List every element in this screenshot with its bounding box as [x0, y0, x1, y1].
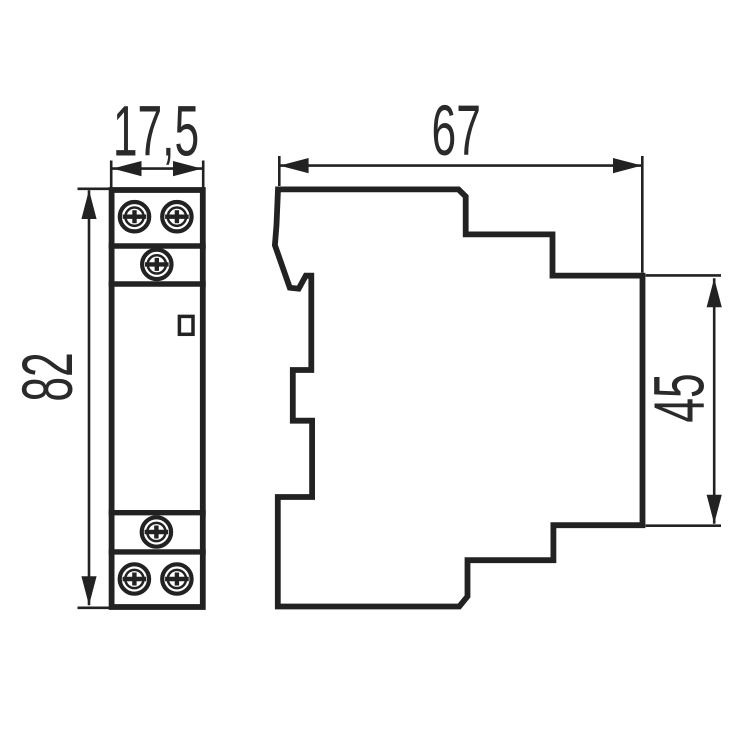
dimension 17,5 line [113, 167, 203, 170]
dimension 82 extension line bottom [78, 606, 111, 609]
screw terminal lower-middle [142, 517, 171, 546]
dimension 82 arrowhead down [81, 576, 96, 605]
dimension 45 extension line bottom [646, 524, 721, 527]
dimension 45 arrowhead up [707, 278, 722, 307]
dimension 67 extension line left [278, 156, 281, 186]
dimension 82 arrowhead up [81, 190, 96, 219]
front view divider line 3 [109, 510, 206, 515]
screw terminal bottom-left [120, 564, 149, 593]
svg-text:82: 82 [7, 352, 87, 401]
dimension 17,5 extension line right [202, 161, 205, 191]
front view divider line 1 [109, 243, 206, 248]
front view divider line 2 [109, 281, 206, 286]
dimension 45 extension line top [646, 274, 721, 277]
screw terminal upper-middle [142, 250, 171, 279]
dimension 17,5 arrowhead left [113, 161, 142, 176]
dimension 67 line [280, 164, 642, 167]
dimension 45 arrowhead down [707, 495, 722, 524]
dimension 45 line [713, 278, 716, 523]
dimension 67 arrowhead left [280, 158, 309, 173]
svg-text:67: 67 [432, 90, 481, 170]
screw terminal top-right [162, 202, 191, 231]
svg-text:17,5: 17,5 [113, 91, 199, 171]
dimension 82 extension line top [78, 188, 111, 191]
screw terminal top-left [120, 202, 149, 231]
dimension 17,5 arrowhead right [173, 161, 202, 176]
side view outline profile [275, 189, 643, 606]
front view divider line 4 [109, 549, 206, 554]
svg-text:45: 45 [639, 373, 719, 422]
dimension 17,5 extension line left [110, 161, 113, 191]
screw terminal bottom-right [162, 564, 191, 593]
indicator window square [179, 316, 193, 334]
dimension 82 line [88, 190, 91, 605]
dimension 67 arrowhead right [613, 158, 642, 173]
front view outline [112, 190, 203, 607]
dimension 67 extension line right [641, 156, 644, 273]
